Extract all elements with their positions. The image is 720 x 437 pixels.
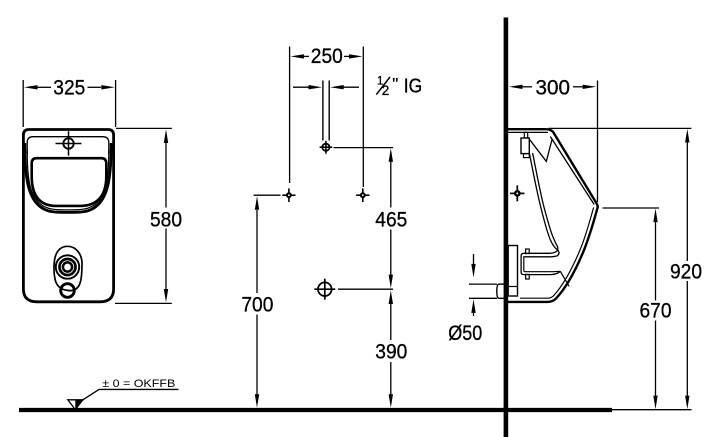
- dim 325 arrow right: [101, 85, 115, 89]
- outlet level reference line: [338, 288, 393, 290]
- svg-text:390: 390: [375, 341, 407, 364]
- dim 580 line lower: [165, 229, 167, 291]
- dim 465 arrow down: [389, 275, 393, 289]
- dim 325 arrow left: [24, 85, 38, 89]
- svg-text:465: 465: [375, 209, 407, 232]
- dim 670 arrow up: [653, 209, 657, 223]
- dim 920 extension line top: [549, 127, 692, 129]
- screw top: [526, 249, 530, 254]
- dim 390 arrow up: [389, 290, 393, 304]
- dim 250 arrow left: [290, 54, 304, 58]
- inner rim line: [27, 137, 109, 154]
- right mounting crosshair: [360, 192, 366, 198]
- dim 920 arrow up: [685, 129, 689, 143]
- side inner back slope: [550, 137, 594, 205]
- side outline top edge: [506, 129, 598, 302]
- dim 920 line upper: [686, 142, 688, 262]
- dim 300 line right segment: [573, 86, 583, 88]
- dim 465 line upper: [390, 161, 392, 208]
- dim O50 arrow down: [473, 254, 475, 265]
- wall mount crosshair: [514, 190, 521, 197]
- dim O50 arrow up: [473, 312, 475, 316]
- svg-text:2: 2: [382, 83, 390, 98]
- dim 700 arrow down: [255, 394, 259, 408]
- dim 700 arrow up: [255, 196, 259, 210]
- dim 700 line upper: [256, 210, 258, 293]
- flange plate divider: [508, 286, 517, 288]
- dim 325 extension line right: [115, 80, 117, 127]
- dim 670 line lower: [655, 321, 657, 397]
- outlet center crosshair: [318, 282, 332, 296]
- dim 390 arrow down: [389, 394, 393, 408]
- dim 250 extension line right: [362, 47, 364, 188]
- dim O50 ref line top: [469, 283, 497, 285]
- svg-text:250: 250: [311, 45, 343, 68]
- dim 670 arrow down: [653, 396, 657, 410]
- inner bowl highlight curve: [27, 150, 109, 210]
- dim 580 extension line bottom: [115, 302, 172, 304]
- dim 580 line upper: [165, 142, 167, 208]
- dim 465 line lower: [390, 230, 392, 276]
- outlet small circle: [61, 284, 75, 298]
- urinal body outline: [23, 130, 113, 302]
- dim 670 extension line top: [603, 207, 660, 209]
- outlet teardrop outline: [54, 246, 82, 290]
- svg-text:": ": [392, 74, 398, 93]
- dim 580 arrow down: [164, 289, 168, 302]
- side inner underside slope: [548, 208, 594, 299]
- label 1/2 IG : fraction slash: [376, 77, 390, 95]
- side top underside line: [506, 131, 548, 133]
- dim 250 line left segment: [303, 55, 310, 57]
- svg-text:325: 325: [53, 77, 85, 100]
- flange plate on wall: [508, 246, 517, 297]
- svg-text:670: 670: [640, 299, 672, 322]
- inlet bracket foot: [524, 154, 530, 158]
- outlet pipe stub top: [499, 283, 506, 285]
- svg-text:920: 920: [670, 260, 702, 283]
- level symbol underline: [99, 388, 179, 390]
- dim 465 arrow up: [389, 148, 393, 162]
- dim 300 line left segment: [522, 86, 532, 88]
- dim 700 line lower: [256, 315, 258, 396]
- floor line: [19, 408, 612, 412]
- mounting level reference line: [254, 194, 281, 196]
- svg-text:300: 300: [536, 77, 571, 100]
- inner bowl basin: [32, 158, 107, 206]
- level symbol triangle: [68, 400, 83, 410]
- floor extension line thin right: [612, 409, 692, 411]
- bowl front curve inner: [523, 153, 557, 253]
- side inner bottom line: [520, 297, 548, 299]
- pipe crosshair: [322, 144, 329, 151]
- dim 390 line upper: [390, 304, 392, 341]
- dim 670 line upper: [655, 221, 657, 301]
- dim 250 line right segment: [344, 55, 351, 57]
- dim 390 line lower: [390, 362, 392, 395]
- inlet crosshair circle: [63, 138, 73, 148]
- level symbol leader diagonal: [83, 389, 99, 399]
- pipe level reference line: [334, 147, 394, 149]
- svg-text:580: 580: [150, 209, 182, 232]
- dim 920 line lower: [686, 281, 688, 397]
- dim 300 arrow right: [583, 85, 597, 89]
- dim 325 extension line left: [22, 80, 24, 127]
- wall: [504, 18, 509, 437]
- outlet pipe stub bottom: [499, 297, 506, 299]
- trap left bend outer: [521, 253, 560, 274]
- dim 250 extension line left: [289, 47, 291, 184]
- supply pipe lines: [322, 81, 324, 141]
- dim 580 extension line top: [116, 127, 172, 129]
- trap outlet diagonal: [560, 271, 569, 286]
- bowl front curve outer: [523, 153, 559, 257]
- outlet middle circle: [60, 259, 76, 275]
- pipe width dim line right with arrow: [342, 86, 359, 88]
- inlet bracket: [521, 138, 529, 154]
- dim 580 arrow up: [164, 129, 168, 143]
- inlet crosshair ticks: [56, 143, 82, 145]
- outlet outer circle: [56, 255, 79, 278]
- trap left bend inner: [523, 257, 560, 272]
- svg-text:IG: IG: [404, 76, 423, 98]
- inlet bracket top stub: [524, 132, 527, 138]
- svg-text:700: 700: [241, 294, 273, 317]
- dim 300 extension line right: [597, 81, 599, 203]
- outer bowl curve: [25, 143, 111, 212]
- screw bottom: [526, 274, 530, 279]
- dim 300 arrow left: [509, 85, 523, 89]
- dim 920 arrow down: [685, 396, 689, 410]
- outlet pipe cap: [497, 284, 499, 298]
- left mounting crosshair: [286, 192, 292, 198]
- dim 250 arrow right: [349, 54, 363, 58]
- dim O50 ref line bottom: [469, 297, 497, 299]
- svg-text:Ø50: Ø50: [448, 322, 482, 345]
- rim spreader V: [530, 139, 552, 162]
- outlet inner circle: [63, 262, 72, 271]
- svg-text:± 0 = OKFFB: ± 0 = OKFFB: [102, 378, 175, 390]
- pipe width dim line left with arrow: [293, 86, 310, 88]
- dim 325 line left segment: [36, 86, 51, 88]
- dim 325 line right segment: [88, 86, 102, 88]
